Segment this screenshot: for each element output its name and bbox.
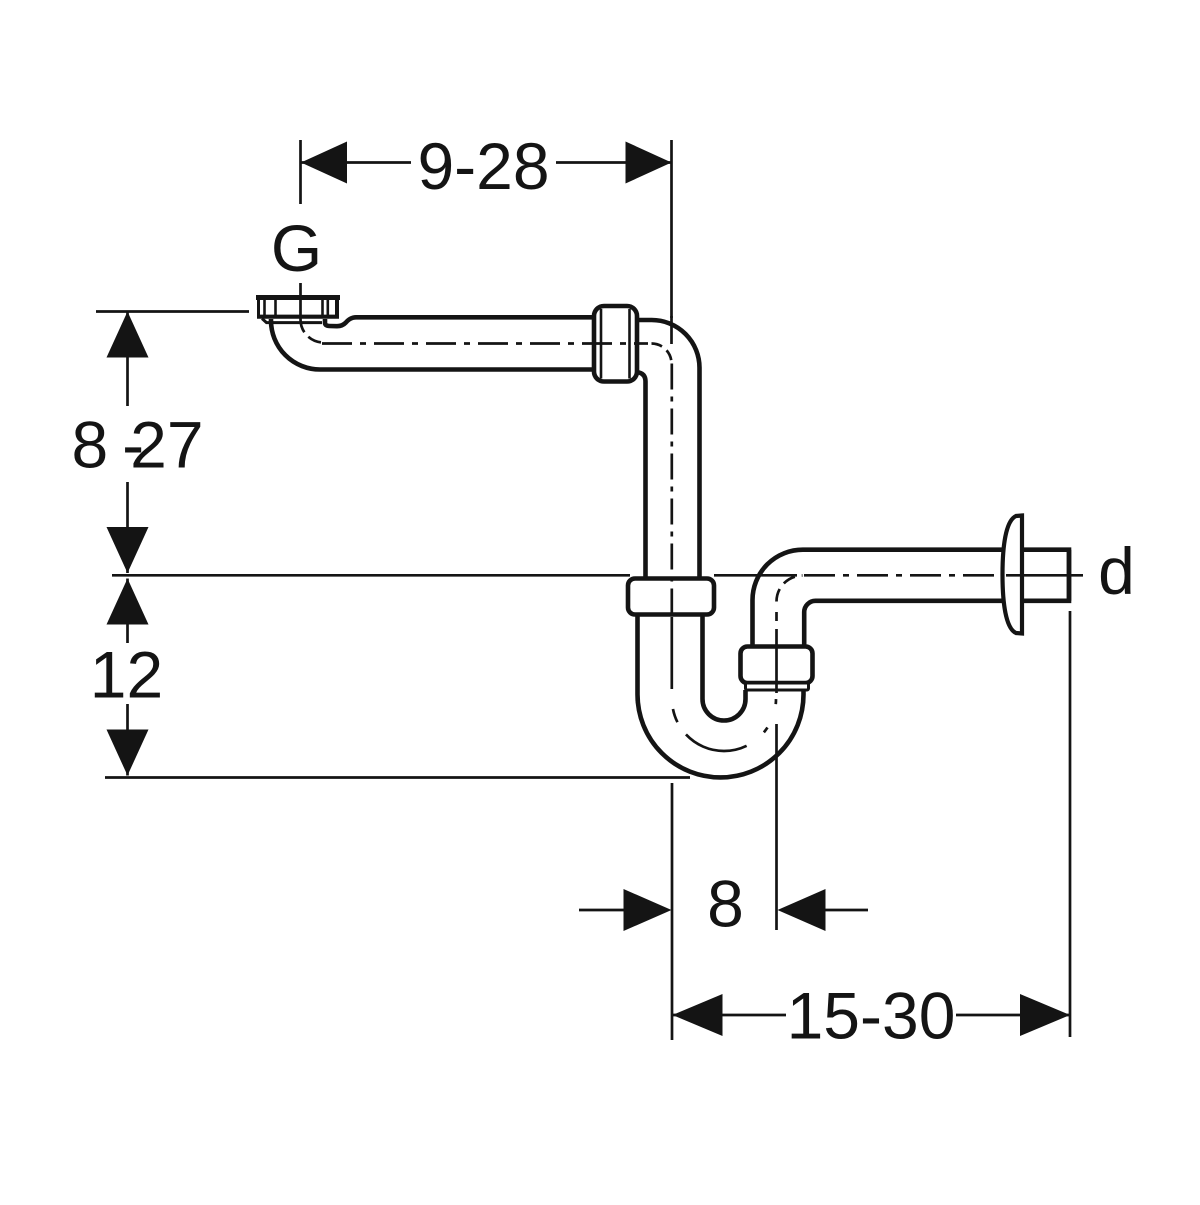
- dimension 8-27 up arrow: [107, 312, 149, 358]
- dimension 8 left arrow pointing right: [624, 889, 672, 931]
- wall flange at outlet outline: [1003, 516, 1023, 634]
- dimension 9-28 left arrow: [301, 142, 347, 184]
- outlet riser fill: [753, 550, 1070, 650]
- centerline outlet horizontal axis: [804, 574, 1000, 577]
- flange G thread tick 3: [321, 300, 324, 316]
- dimension 8-27 line upper segment: [126, 312, 129, 407]
- extension line x=776.5 through trap (8 dim right): [775, 724, 778, 930]
- dimension 15-30 line left segment: [673, 1014, 787, 1017]
- reference line middle (outlet axis datum, long): [112, 574, 630, 577]
- dimension 12 line upper segment: [126, 579, 129, 644]
- extension line x=672 below trap: [671, 783, 674, 1040]
- reference line bottom (floor datum): [105, 776, 690, 779]
- dimension 8 left tail: [579, 909, 624, 912]
- svg-text:8-27: 8-27: [71, 408, 203, 482]
- extension line x=300 upper segment: [299, 140, 302, 204]
- centerline inlet axis vertical through flange: [299, 283, 302, 319]
- trap body fill: [638, 612, 804, 777]
- reference line top (8-27 upper datum): [96, 310, 249, 313]
- svg-text:G: G: [271, 211, 322, 285]
- dimension 12 line lower segment: [126, 704, 129, 776]
- elbow and down pipe fill: [635, 318, 701, 582]
- centerline inlet horizontal axis: [315, 342, 648, 345]
- centerline U sweep: [672, 699, 776, 751]
- dimension 8 right arrow pointing left: [778, 889, 826, 931]
- flange G bottom line: [257, 315, 339, 319]
- extension line x=671.5 segment crossing elbow down to axis: [670, 316, 673, 344]
- flange G left edge: [257, 296, 260, 317]
- flange G skirt: [262, 319, 322, 323]
- centerline inlet elbow arc: [300, 319, 323, 343]
- centerline down pipe axis inside trap arm: [670, 617, 673, 689]
- flange G right edge: [335, 296, 339, 317]
- centerline outlet riser dash through nut: [775, 629, 778, 693]
- inlet pipe outer bottom outline: [271, 317, 596, 370]
- extension line x=1070 below outlet end: [1069, 611, 1072, 1037]
- inlet pipe top outline with joint notch: [325, 317, 596, 326]
- centerline inlet to down elbow arc: [652, 344, 672, 364]
- inlet nut inner facet lines: [600, 309, 603, 379]
- inlet wall flange G plate fill: [257, 295, 340, 319]
- wall flange at outlet fill: [1003, 516, 1023, 634]
- svg-text:d: d: [1098, 534, 1135, 608]
- centerline outlet axis solid segment: [714, 574, 797, 577]
- trap left arm inner edge and U inner sweep: [703, 613, 746, 721]
- dimension 8-27 line lower segment: [126, 482, 129, 573]
- dimension 12 up arrow: [107, 579, 149, 625]
- extension line x=671.5 from dim 9-28 down: [670, 140, 673, 320]
- outlet end cap: [1067, 550, 1072, 601]
- centerline outlet axis end solid segment through wall: [1006, 574, 1083, 577]
- trap left arm outer edge and U outer sweep: [638, 613, 804, 777]
- flange G top edge: [256, 295, 340, 300]
- flange G thread tick 2: [274, 300, 277, 316]
- dimension 9-28 line right segment: [556, 161, 672, 164]
- inlet union nut G: [594, 306, 637, 382]
- svg-text:8: 8: [707, 867, 744, 941]
- centerline down pipe axis: [670, 364, 673, 615]
- centerline outlet riser dot: [775, 612, 778, 621]
- dimension 15-30 line right segment: [956, 1014, 1070, 1017]
- inlet pipe body fill: [271, 318, 700, 370]
- dimension 9-28 right arrow: [626, 142, 672, 184]
- down pipe left edge: [637, 372, 646, 581]
- dimension 8 right tail: [826, 909, 869, 912]
- dimension 8-27 down arrow: [107, 527, 149, 573]
- flange G thread tick 4: [326, 300, 329, 316]
- dimension 12 down arrow: [107, 730, 149, 776]
- svg-text:15-30: 15-30: [787, 979, 956, 1053]
- dimension 9-28 line left segment: [301, 161, 411, 164]
- centerline outlet elbow arc: [777, 576, 803, 602]
- trap inlet coupling: [628, 579, 714, 615]
- dimension 15-30 right arrow: [1020, 994, 1070, 1036]
- svg-text:9-28: 9-28: [417, 129, 549, 203]
- trap outlet nut: [741, 647, 813, 684]
- dimension 15-30 left arrow: [673, 994, 723, 1036]
- flange G thread tick 1: [263, 300, 266, 316]
- outlet riser and elbow outline: [753, 550, 1070, 650]
- svg-text:12: 12: [90, 638, 163, 712]
- trap outlet nut skirt: [746, 683, 809, 690]
- elbow outer outline to down pipe right edge: [637, 320, 700, 581]
